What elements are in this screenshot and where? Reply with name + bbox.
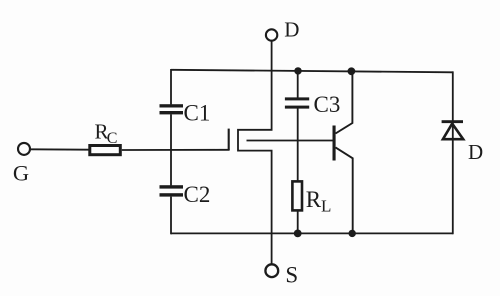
svg-text:C2: C2 <box>184 182 211 207</box>
capacitor C2 <box>160 182 211 207</box>
junction dot bottom emitter <box>349 230 356 237</box>
diode D <box>442 120 484 164</box>
svg-text:R: R <box>306 187 322 212</box>
svg-text:C3: C3 <box>314 92 341 117</box>
svg-text:D: D <box>284 18 299 42</box>
svg-text:C1: C1 <box>184 101 211 126</box>
svg-text:D: D <box>468 140 483 164</box>
terminal S <box>265 262 298 287</box>
wire left rail segments <box>170 69 172 234</box>
transistor Q1 emitter lead <box>336 147 353 234</box>
transistor Q1 collector lead <box>336 71 353 133</box>
svg-text:G: G <box>13 161 29 186</box>
terminal D <box>266 18 299 42</box>
junction dot top C3 <box>294 67 301 74</box>
wire bulk lead to transistor base <box>247 140 333 142</box>
wire C3 R_L branch vertical <box>297 70 299 234</box>
capacitor C1 <box>160 101 211 126</box>
resistor RC <box>90 119 121 154</box>
wire RC to gate <box>122 149 230 151</box>
MOSFET channel with D and S stems <box>238 41 272 264</box>
capacitor C3 <box>285 92 340 117</box>
wire bottom bus <box>171 232 453 234</box>
wire G to RC <box>30 148 88 150</box>
junction dot top collector <box>348 67 356 75</box>
wire right rail <box>452 71 454 234</box>
transistor Q1 base bar <box>333 126 336 161</box>
MOSFET gate bar <box>228 129 230 150</box>
terminal G <box>13 143 30 186</box>
resistor RL <box>292 181 331 215</box>
svg-text:L: L <box>321 197 331 216</box>
svg-text:S: S <box>285 262 298 287</box>
wire top bus <box>171 70 453 73</box>
svg-text:C: C <box>107 130 118 147</box>
junction dot bottom RL <box>294 230 302 238</box>
